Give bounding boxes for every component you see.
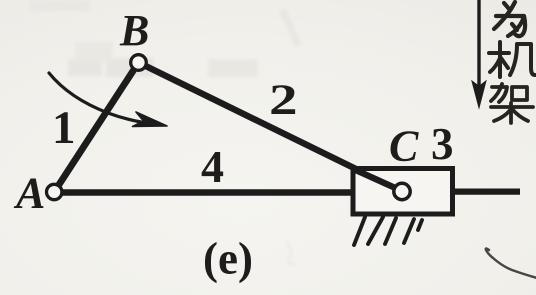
label 1 — [52, 102, 76, 154]
annotation text 为机架 (hand-drawn CJK strokes) — [489, 2, 535, 123]
svg-text:4: 4 — [201, 141, 224, 192]
slider block 3 — [353, 169, 453, 215]
bleed-through stains (faint) — [30, 0, 298, 264]
pin joint C — [394, 183, 410, 199]
guide rail right segment — [455, 189, 520, 195]
stray pen mark bottom right — [486, 249, 536, 279]
label 2 — [269, 76, 298, 124]
revolute joint B — [131, 55, 147, 71]
svg-text:3: 3 — [431, 119, 454, 169]
caption (e) — [203, 234, 253, 284]
svg-text:C: C — [389, 122, 419, 171]
link 2 (coupler B-C) — [139, 63, 403, 192]
link 4 (bar from A to slider guide) — [60, 189, 352, 196]
svg-text:A: A — [13, 169, 45, 218]
char 架 — [491, 84, 533, 123]
label C — [389, 122, 419, 171]
rotation arrow on link 1 — [49, 73, 167, 127]
svg-text:(e): (e) — [203, 234, 253, 284]
annotation arrow pointing down (right margin) — [472, 0, 485, 107]
svg-text:2: 2 — [269, 76, 298, 124]
link 1 (crank A-B) — [54, 63, 138, 193]
label 3 — [431, 119, 454, 169]
char 为 — [494, 2, 525, 36]
svg-text:B: B — [119, 6, 149, 55]
label A — [13, 169, 45, 218]
revolute joint A — [47, 184, 62, 199]
char 机 — [489, 42, 535, 77]
ground hatching under slider — [354, 217, 422, 245]
svg-text:1: 1 — [52, 102, 76, 154]
label 4 — [201, 141, 224, 192]
label B — [119, 6, 149, 55]
